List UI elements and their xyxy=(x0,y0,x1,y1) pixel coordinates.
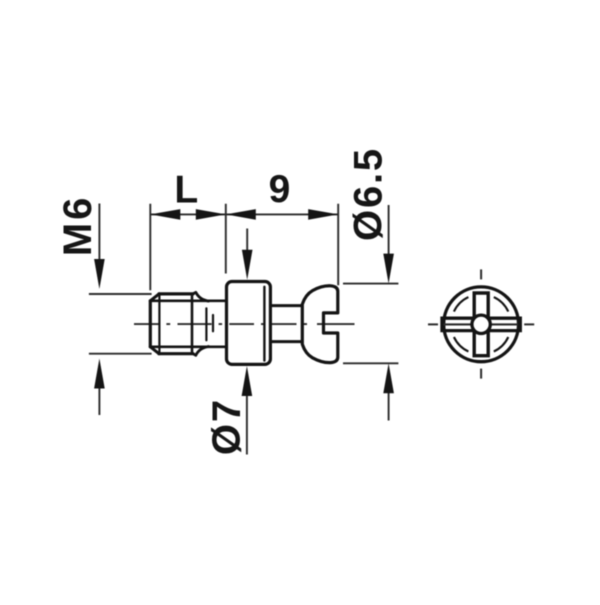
end view outer circle xyxy=(444,287,519,362)
neck vertical line 1 xyxy=(205,308,207,340)
dia 7 leader bottom xyxy=(246,393,248,455)
chamfer diagonal top xyxy=(150,294,159,301)
svg-text:9: 9 xyxy=(269,168,291,211)
arrow 9 right xyxy=(308,209,338,220)
dia 7 leader top xyxy=(246,229,248,253)
arrow L right xyxy=(196,209,226,220)
arrow dia6.5 bottom xyxy=(383,363,394,393)
end view horizontal centerline inside slot band xyxy=(444,323,519,325)
arrow L left xyxy=(150,209,180,220)
dimension line L and 9 xyxy=(150,213,338,215)
dia 6.5 bottom extension line xyxy=(343,362,398,364)
arrow M6 bottom xyxy=(94,359,105,389)
svg-text:M6: M6 xyxy=(56,195,100,257)
thread end vertical line xyxy=(191,294,194,354)
M6 dimension line bottom xyxy=(98,387,100,415)
thread crest bottom xyxy=(159,352,193,355)
arrow dia6.5 top xyxy=(383,254,394,284)
center circle xyxy=(472,315,490,333)
thread root/neck bottom line xyxy=(150,345,226,348)
centerline tick top xyxy=(480,269,482,279)
neck vertical line 2 xyxy=(212,315,214,331)
arrow 9 left xyxy=(226,209,256,220)
horizontal slot band xyxy=(442,318,520,330)
M6 dimension line top xyxy=(98,204,100,263)
M6 top extension line xyxy=(89,293,152,295)
centerline tick right xyxy=(524,323,534,325)
arrow M6 top xyxy=(94,259,105,289)
vertical slot xyxy=(474,293,488,356)
svg-text:L: L xyxy=(174,168,198,211)
thread M6 section xyxy=(150,292,226,355)
dia 6.5 top extension line xyxy=(343,283,398,285)
shaft top line xyxy=(270,304,302,307)
quadrant arc lower-right xyxy=(494,337,509,352)
dia 6.5 dimension line bottom xyxy=(388,391,390,421)
head with slot (side view) xyxy=(302,286,338,363)
dia 6.5 dimension line top xyxy=(388,205,390,256)
collar (7 mm cylinder) xyxy=(227,282,271,365)
dimension 9 right extension line xyxy=(337,204,339,285)
thread crest top xyxy=(159,292,193,295)
centerline tick left xyxy=(428,323,438,325)
quadrant arc upper-left xyxy=(454,297,469,312)
centerline tick bottom xyxy=(480,369,482,379)
svg-text:Ø6.5: Ø6.5 xyxy=(347,147,391,241)
thread runout top xyxy=(193,292,209,301)
quadrant arc lower-left xyxy=(454,337,469,352)
centerline side view xyxy=(134,323,355,325)
chamfer vertical line xyxy=(158,294,160,354)
collar inner edge line xyxy=(263,287,265,361)
thread root/neck top line xyxy=(150,299,226,302)
thread runout bottom xyxy=(193,347,209,356)
arrow dia7 top xyxy=(242,250,253,280)
thread left edge xyxy=(149,301,152,347)
chamfer diagonal bottom xyxy=(150,347,159,354)
shaft bottom line xyxy=(270,340,302,343)
arrowheads xyxy=(94,209,394,396)
arrow dia7 bottom xyxy=(242,366,253,396)
quadrant arc upper-right xyxy=(494,297,509,312)
dimension L extension line left xyxy=(89,204,399,455)
dimension L/9 shared extension line xyxy=(225,204,227,274)
M6 bottom extension line xyxy=(89,353,152,355)
svg-text:Ø7: Ø7 xyxy=(205,398,249,455)
